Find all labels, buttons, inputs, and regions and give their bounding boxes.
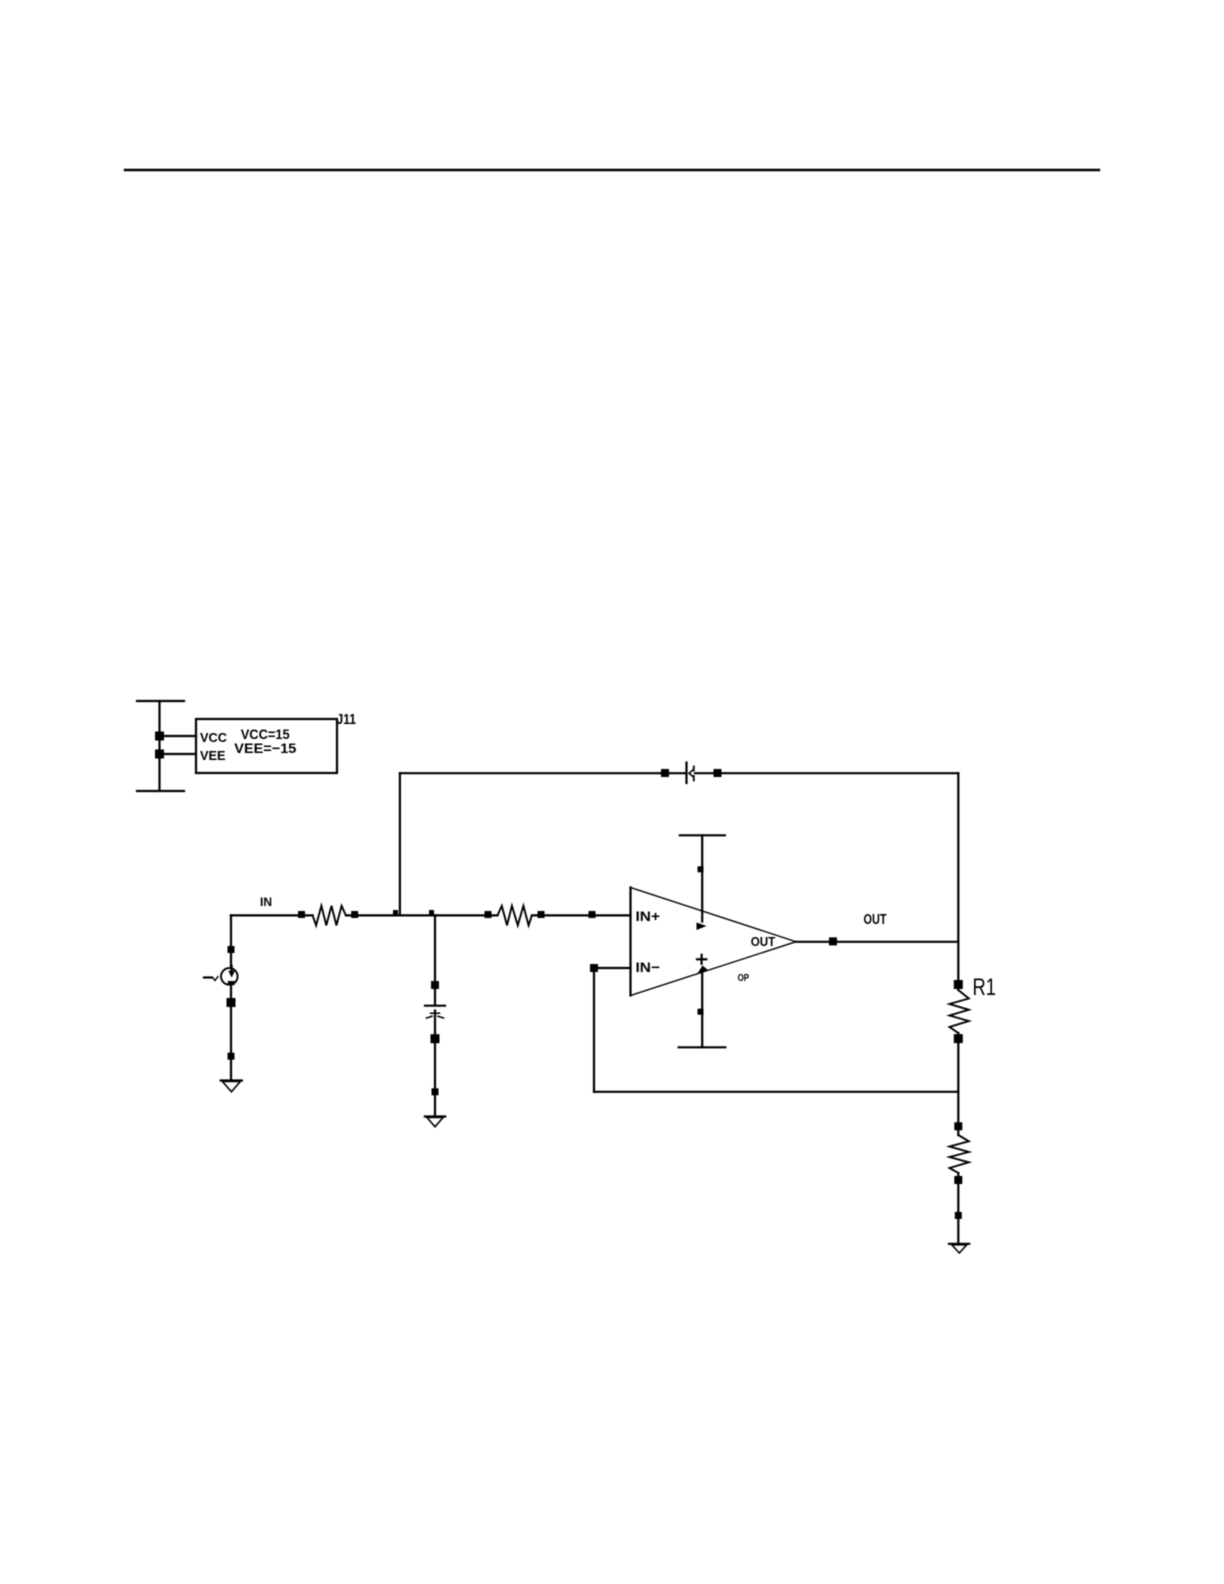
svg-text:J11: J11 [337, 711, 357, 728]
svg-text:VEE=−15: VEE=−15 [234, 740, 296, 756]
svg-text:IN−: IN− [636, 959, 661, 975]
svg-text:VCC: VCC [200, 730, 228, 745]
svg-text:VEE: VEE [200, 748, 226, 763]
svg-text:IN+: IN+ [636, 908, 661, 924]
svg-text:OUT: OUT [751, 934, 776, 949]
svg-text:R1: R1 [973, 974, 997, 1001]
svg-text:OUT: OUT [864, 912, 887, 928]
svg-text:IN: IN [260, 897, 272, 909]
svg-text:OP: OP [738, 973, 750, 984]
